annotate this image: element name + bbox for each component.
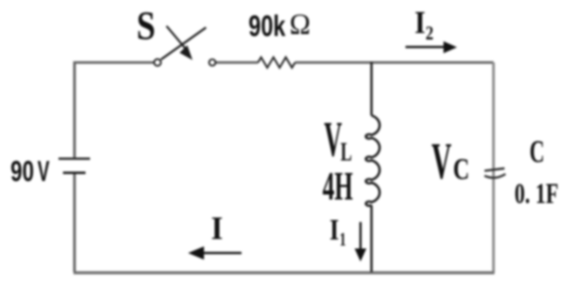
wire switch to resistor	[216, 61, 258, 64]
switch S actuate arrow	[167, 26, 186, 48]
svg-text:C: C	[530, 133, 545, 169]
resistor R1 90k	[258, 57, 295, 67]
svg-text:V: V	[432, 133, 452, 190]
wire top-left to switch	[75, 63, 155, 158]
wire left below battery	[73, 174, 76, 273]
switch S blade	[161, 28, 206, 60]
svg-text:V: V	[324, 111, 342, 167]
svg-text:I: I	[415, 4, 426, 40]
battery B1 90V	[59, 159, 91, 173]
wire middle branch upper	[370, 62, 372, 116]
arrow I1 down	[359, 222, 361, 249]
svg-text:C: C	[453, 151, 470, 186]
arrow I2	[406, 46, 445, 48]
svg-text:1: 1	[340, 230, 347, 251]
svg-text:I: I	[330, 214, 340, 247]
capacitor C plates	[485, 168, 506, 177]
inductor L1 4H	[366, 116, 380, 206]
wire bottom	[74, 271, 495, 274]
svg-text:90: 90	[11, 156, 35, 188]
arrow I bottom (left)	[203, 252, 242, 254]
wire right vertical	[492, 63, 495, 273]
switch terminal right	[209, 59, 215, 65]
switch terminal left	[154, 59, 161, 66]
wire resistor to top-right corner	[295, 61, 494, 64]
svg-text:I: I	[211, 211, 223, 247]
svg-text:V: V	[38, 156, 50, 188]
svg-text:90k: 90k	[249, 10, 286, 43]
svg-text:0. 1F: 0. 1F	[515, 178, 559, 210]
svg-text:2: 2	[426, 23, 434, 45]
svg-text:4H: 4H	[323, 164, 354, 209]
svg-text:L: L	[341, 138, 353, 167]
wire middle branch lower	[370, 205, 372, 272]
svg-text:Ω: Ω	[290, 8, 311, 41]
svg-text:S: S	[137, 3, 156, 48]
